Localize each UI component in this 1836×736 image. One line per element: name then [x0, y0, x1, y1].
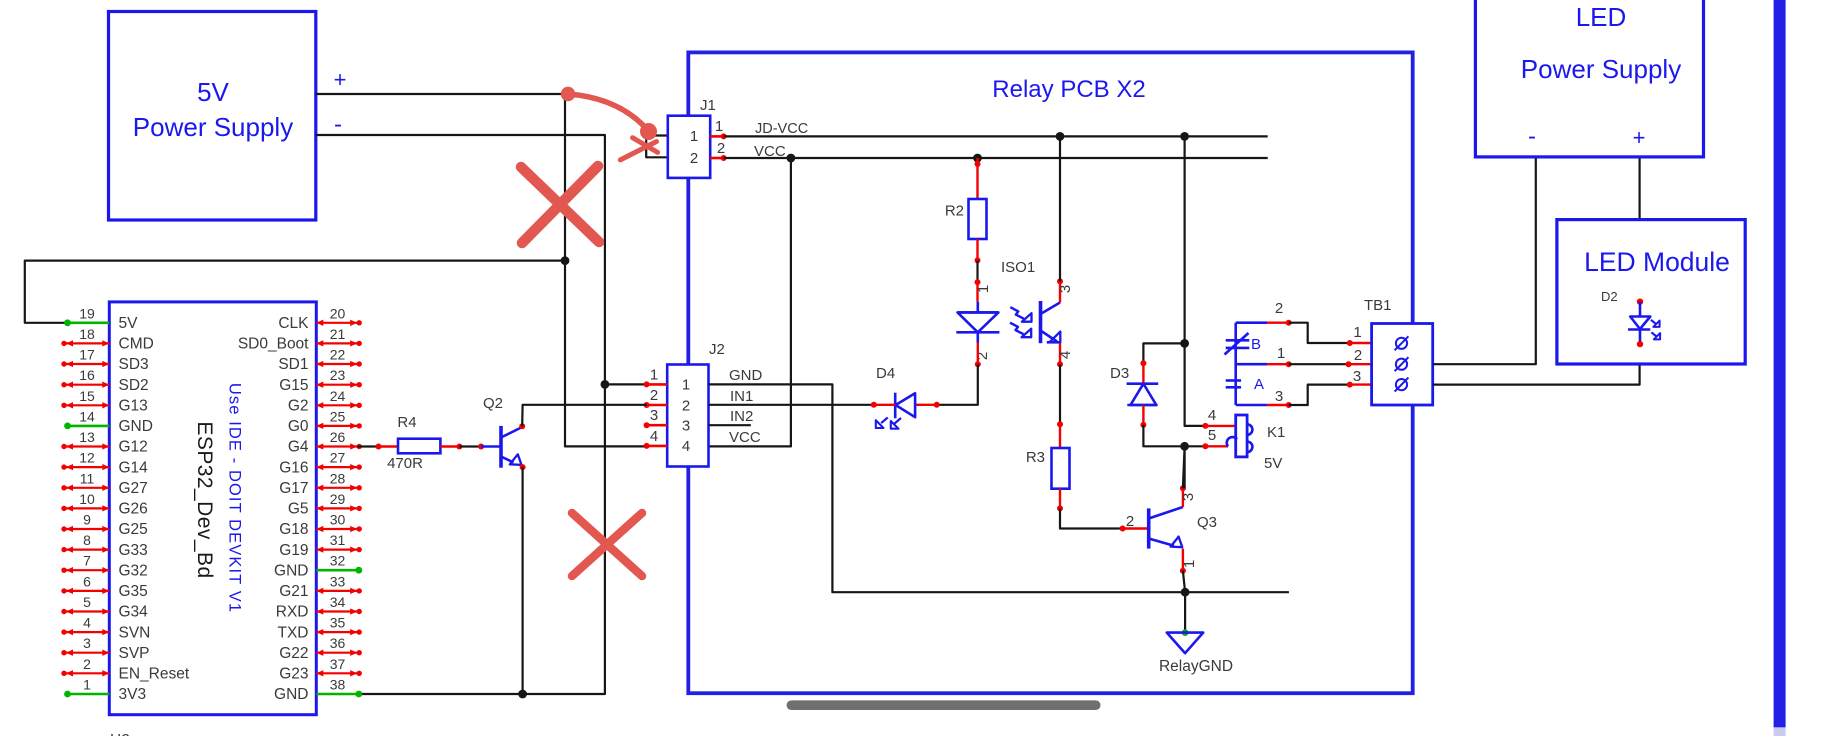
wire JD-VCC line down to coil — [1183, 136, 1185, 343]
svg-text:SVP: SVP — [119, 645, 150, 662]
junction JD-VCC / ISO1 collector — [1056, 132, 1065, 141]
transistor Q3 — [1147, 508, 1151, 548]
ESP32 pin 24 (G2) — [316, 404, 357, 406]
RelayGND pin dot — [1182, 629, 1189, 636]
ESP32 pin 16 (SD2) — [66, 384, 109, 386]
svg-text:Power Supply: Power Supply — [133, 112, 293, 142]
wire Q2 emitter to GND rail — [521, 467, 523, 694]
connector J2 box — [667, 365, 708, 467]
junction GND rail / Q2 emitter — [518, 690, 527, 699]
svg-text:34: 34 — [330, 594, 346, 610]
svg-text:5: 5 — [83, 594, 91, 610]
red X annotation 1 — [521, 167, 599, 242]
svg-text:G5: G5 — [288, 501, 309, 518]
J1 pin2 stub — [710, 157, 723, 160]
junction VCC / R2 — [973, 154, 982, 163]
svg-text:1: 1 — [1277, 345, 1285, 362]
svg-text:D3: D3 — [1110, 365, 1129, 382]
ESP32 pin 19 (5V) — [68, 321, 110, 324]
svg-text:24: 24 — [330, 388, 346, 404]
ESP32 pin 21 (SD0_Boot) — [316, 342, 357, 344]
wire -5V from supply down to GND rail — [316, 135, 605, 694]
svg-text:1: 1 — [975, 285, 992, 293]
junction coil pin5 / Q3 collector — [1180, 442, 1189, 451]
svg-text:G0: G0 — [288, 418, 309, 435]
Q3 collector stub — [1182, 488, 1184, 507]
wire Q3 emitter to ground rail — [1183, 571, 1185, 593]
TB1 pin2 stub — [1349, 363, 1372, 365]
svg-text:37: 37 — [330, 656, 346, 672]
Relay PCB X2 module outline box — [688, 52, 1412, 693]
svg-text:2: 2 — [1275, 300, 1283, 317]
wire J2 GND to ground rail — [709, 384, 1289, 592]
wire J2 IN1 to D4 — [709, 404, 874, 406]
svg-text:-: - — [1528, 123, 1536, 150]
ESP32 pin 38 (GND) — [316, 693, 359, 696]
ESP32 pin 18 (CMD) — [66, 342, 109, 344]
svg-text:K1: K1 — [1267, 424, 1285, 441]
svg-text:GND: GND — [729, 367, 763, 384]
svg-text:20: 20 — [330, 305, 346, 321]
ESP32 pin 29 (G5) — [316, 507, 357, 509]
wire Q2 collector to J2 IN1 — [522, 405, 646, 427]
wire TB1 pin2 to LED supply minus — [1433, 157, 1536, 364]
ESP32 pin 4 (SVN) — [66, 631, 109, 633]
svg-text:G21: G21 — [279, 583, 308, 600]
wire junction down to Q3 — [1183, 446, 1185, 488]
J2 pin4 stub — [647, 445, 668, 448]
svg-text:G33: G33 — [119, 542, 148, 559]
wire ISO1 collector to JD-VCC — [1059, 136, 1061, 281]
K1 coil pin4 stub — [1205, 425, 1235, 427]
svg-text:G17: G17 — [279, 480, 308, 497]
wire J2 pin1 GND — [605, 383, 647, 385]
svg-text:16: 16 — [79, 367, 95, 383]
svg-text:J2: J2 — [709, 341, 725, 358]
svg-text:G15: G15 — [279, 377, 308, 394]
svg-text:G2: G2 — [288, 398, 309, 415]
wire ISO1 cathode to D4 — [937, 364, 978, 405]
svg-text:4: 4 — [650, 428, 658, 445]
svg-text:2: 2 — [690, 150, 698, 167]
diode D3 — [1140, 360, 1146, 366]
wire +5V from supply to J2 VCC — [316, 94, 647, 446]
svg-text:470R: 470R — [387, 455, 423, 472]
relay K1 contacts — [1234, 323, 1237, 405]
svg-text:JD-VCC: JD-VCC — [755, 121, 808, 137]
svg-text:J1: J1 — [700, 97, 716, 114]
ISO1 pin4 stub — [1059, 343, 1061, 364]
TB1 pin1 stub — [1350, 342, 1372, 344]
TB1 screw terminal 2 — [1396, 359, 1407, 370]
wire JD-VCC rail — [724, 135, 1268, 137]
svg-text:G25: G25 — [119, 521, 148, 538]
wire stub J2 IN2 — [709, 424, 751, 426]
ESP32 pin 6 (G35) — [66, 590, 109, 592]
wire LED supply plus to LED module — [1638, 157, 1640, 220]
resistor R2 — [969, 199, 987, 239]
svg-text:30: 30 — [330, 512, 346, 528]
ESP32 pin 32 (GND) — [316, 569, 359, 572]
svg-text:1: 1 — [1181, 560, 1198, 568]
svg-text:9: 9 — [83, 512, 91, 528]
svg-text:2: 2 — [717, 140, 725, 157]
wire ESP32 G4 to R4 — [357, 445, 378, 447]
svg-text:GND: GND — [119, 418, 153, 435]
ESP32 pin 11 (G27) — [66, 487, 109, 489]
ESP32 pin 34 (RXD) — [316, 610, 357, 612]
ESP32 pin 8 (G33) — [66, 548, 109, 550]
svg-text:LED: LED — [1576, 2, 1627, 32]
svg-text:19: 19 — [79, 305, 95, 321]
ESP32 pin 37 (G23) — [316, 672, 357, 674]
ESP32 pin 20 (CLK) — [316, 322, 357, 324]
svg-text:5V: 5V — [119, 315, 139, 332]
jumper bracket J1 pins 1-2 — [646, 136, 668, 158]
wire D3 cathode branch — [1143, 343, 1184, 363]
svg-text:12: 12 — [79, 450, 95, 466]
ESP32 pin 27 (G16) — [316, 466, 357, 468]
transistor Q2 — [481, 445, 501, 448]
svg-text:22: 22 — [330, 347, 346, 363]
svg-text:EN_Reset: EN_Reset — [119, 666, 190, 683]
ESP32 pin 26 (G4) — [316, 445, 357, 447]
svg-text:G19: G19 — [279, 542, 308, 559]
svg-text:G16: G16 — [279, 459, 308, 476]
J2 pin2 stub — [647, 404, 668, 407]
svg-text:1: 1 — [1353, 324, 1361, 341]
svg-text:15: 15 — [79, 388, 95, 404]
J2 pin1 stub — [647, 383, 668, 386]
junction VCC / J2 VCC drop — [787, 154, 796, 163]
ground symbol RelayGND — [1167, 633, 1203, 654]
svg-text:26: 26 — [330, 429, 346, 445]
svg-text:29: 29 — [330, 491, 346, 507]
contact pin3 stub — [1267, 404, 1289, 406]
svg-text:SD1: SD1 — [278, 356, 308, 373]
svg-text:5V: 5V — [1264, 455, 1282, 472]
svg-text:8: 8 — [83, 532, 91, 548]
wire D3 anode to coil pin5 line — [1143, 425, 1205, 446]
svg-text:2: 2 — [682, 397, 690, 414]
svg-text:32: 32 — [330, 553, 346, 569]
svg-text:25: 25 — [330, 408, 346, 424]
svg-text:G22: G22 — [279, 645, 308, 662]
ISO1 phototransistor — [1039, 301, 1043, 343]
ESP32 pin 36 (G22) — [316, 652, 357, 654]
svg-text:2: 2 — [650, 387, 658, 404]
svg-text:38: 38 — [330, 677, 346, 693]
svg-text:1: 1 — [690, 128, 698, 145]
junction - wire / J2 GND — [601, 380, 610, 389]
svg-text:G18: G18 — [279, 521, 308, 538]
svg-text:G27: G27 — [119, 480, 148, 497]
resistor R4 — [398, 439, 440, 454]
svg-text:G32: G32 — [119, 562, 148, 579]
svg-text:Use IDE - DOIT DEVKIT V1: Use IDE - DOIT DEVKIT V1 — [226, 383, 244, 613]
svg-text:G23: G23 — [279, 666, 308, 683]
gray scrollbar — [787, 700, 1101, 710]
blue page edge bar — [1774, 0, 1786, 727]
svg-text:2: 2 — [974, 352, 991, 360]
svg-text:GND: GND — [274, 562, 308, 579]
ISO1 light arrows — [1010, 307, 1024, 319]
svg-text:CLK: CLK — [278, 315, 309, 332]
svg-text:G13: G13 — [119, 398, 148, 415]
svg-text:D4: D4 — [876, 365, 895, 382]
svg-text:B: B — [1251, 336, 1261, 353]
wire R4 to Q2 base — [440, 445, 459, 447]
svg-text:36: 36 — [330, 635, 346, 651]
svg-text:G14: G14 — [119, 459, 149, 476]
wire to RelayGND — [1184, 592, 1186, 631]
svg-text:3: 3 — [1353, 368, 1361, 385]
K1 coil pin5 stub — [1205, 445, 1228, 447]
diode D4 — [916, 404, 937, 406]
J2 pin3 stub — [647, 424, 668, 427]
svg-text:CMD: CMD — [119, 336, 154, 353]
svg-text:IN1: IN1 — [730, 388, 753, 405]
svg-text:R2: R2 — [945, 203, 964, 220]
LED power supply box — [1475, 0, 1703, 157]
svg-text:G35: G35 — [119, 583, 148, 600]
ESP32 pin 2 (EN_Reset) — [66, 672, 109, 674]
ESP32 pin 5 (G34) — [66, 610, 109, 612]
TB1 screw terminal 1 — [1396, 338, 1407, 349]
LED D2 — [1637, 299, 1643, 305]
svg-text:RelayGND: RelayGND — [1159, 658, 1233, 675]
ESP32 pin 33 (G21) — [316, 590, 357, 592]
ESP32 pin 28 (G17) — [316, 487, 357, 489]
ESP32 pin 7 (G32) — [66, 569, 109, 571]
ISO1 LED — [976, 302, 979, 313]
svg-text:LED Module: LED Module — [1584, 247, 1730, 277]
svg-text:Relay PCB X2: Relay PCB X2 — [992, 76, 1145, 103]
svg-text:3V3: 3V3 — [119, 686, 147, 703]
svg-text:+: + — [334, 67, 347, 92]
wire ISO1 emitter to R3 — [1059, 364, 1061, 424]
svg-text:3: 3 — [682, 418, 690, 435]
ESP32 pin 15 (G13) — [66, 404, 109, 406]
svg-text:33: 33 — [330, 573, 346, 589]
TB1 screw terminal 3 — [1396, 379, 1407, 390]
J1 pin1 stub — [710, 135, 723, 138]
ESP32 pin 25 (G0) — [316, 425, 357, 427]
relay coil K1 — [1236, 415, 1247, 457]
svg-text:3: 3 — [1275, 388, 1283, 405]
svg-text:18: 18 — [79, 326, 95, 342]
svg-text:21: 21 — [330, 326, 346, 342]
svg-text:A: A — [1254, 376, 1264, 393]
ESP32 pin 14 (GND) — [68, 425, 110, 428]
terminal block TB1 box — [1372, 324, 1433, 406]
wire contact3 to TB1 pin3 — [1289, 385, 1350, 405]
svg-text:13: 13 — [79, 429, 95, 445]
resistor R3 — [1052, 448, 1070, 489]
wire VCC rail — [724, 157, 1268, 159]
svg-text:H2: H2 — [110, 732, 130, 736]
wire VCC down to J2 pin4 — [709, 158, 791, 446]
svg-text:G4: G4 — [288, 439, 309, 456]
svg-text:1: 1 — [682, 377, 690, 394]
svg-text:2: 2 — [1354, 347, 1362, 364]
connector J1 box — [668, 116, 710, 178]
ESP32 pin 35 (TXD) — [316, 631, 357, 633]
svg-text:31: 31 — [330, 532, 346, 548]
svg-text:G34: G34 — [119, 604, 149, 621]
svg-text:23: 23 — [330, 367, 346, 383]
svg-text:1: 1 — [650, 366, 658, 383]
ESP32 pin 10 (G26) — [66, 507, 109, 509]
Q3 emitter stub — [1182, 549, 1184, 571]
svg-text:G26: G26 — [119, 501, 148, 518]
junction ground rail / Q3 emitter — [1181, 588, 1190, 597]
svg-text:TXD: TXD — [278, 624, 309, 641]
svg-text:3: 3 — [1180, 493, 1197, 501]
svg-text:IN2: IN2 — [730, 408, 753, 425]
TB1 pin3 stub — [1350, 383, 1372, 385]
svg-text:17: 17 — [79, 347, 95, 363]
svg-text:1: 1 — [83, 677, 91, 693]
ESP32 pin 23 (G15) — [316, 384, 357, 386]
svg-text:2: 2 — [83, 656, 91, 672]
svg-text:4: 4 — [83, 615, 91, 631]
svg-text:SD2: SD2 — [119, 377, 149, 394]
ESP32 pin 13 (G12) — [66, 445, 109, 447]
svg-text:G12: G12 — [119, 439, 148, 456]
svg-text:1: 1 — [715, 118, 723, 135]
svg-text:4: 4 — [1057, 351, 1074, 359]
svg-text:Q2: Q2 — [483, 395, 503, 412]
junction +5V to ESP32 — [561, 256, 570, 265]
svg-text:TB1: TB1 — [1364, 297, 1392, 314]
ESP32 pin 17 (SD3) — [66, 363, 109, 365]
wire contact2 to TB1 pin1 — [1289, 323, 1350, 343]
svg-text:35: 35 — [330, 615, 346, 631]
wire R3 to Q3 base — [1059, 489, 1061, 509]
svg-text:6: 6 — [83, 573, 91, 589]
red curve annotation — [568, 94, 649, 131]
red small x annotation — [633, 138, 658, 153]
svg-text:VCC: VCC — [729, 429, 761, 446]
ESP32 pin 22 (SD1) — [316, 363, 357, 365]
svg-text:14: 14 — [79, 408, 95, 424]
ESP32 module box — [109, 302, 316, 715]
svg-text:4: 4 — [682, 438, 690, 455]
svg-text:5: 5 — [1208, 427, 1216, 444]
svg-text:2: 2 — [1126, 513, 1134, 530]
wire +5V branch to ESP32 pin19 — [25, 261, 565, 323]
svg-text:SVN: SVN — [119, 624, 151, 641]
ISO1 pin3 stub — [1059, 281, 1061, 302]
svg-text:Power Supply: Power Supply — [1521, 54, 1681, 84]
svg-text:Q3: Q3 — [1197, 514, 1217, 531]
svg-text:SD3: SD3 — [119, 356, 149, 373]
wire R2 to ISO1 anode — [976, 239, 978, 260]
contact pin2 stub — [1267, 322, 1289, 324]
svg-text:27: 27 — [330, 450, 346, 466]
svg-text:4: 4 — [1208, 407, 1216, 424]
svg-text:D2: D2 — [1601, 289, 1618, 304]
svg-text:+: + — [1633, 125, 1646, 150]
svg-text:10: 10 — [79, 491, 95, 507]
svg-text:28: 28 — [330, 470, 346, 486]
svg-text:11: 11 — [80, 470, 95, 486]
svg-text:GND: GND — [274, 686, 308, 703]
svg-text:3: 3 — [83, 635, 91, 651]
red X annotation 2 — [572, 513, 642, 576]
contact pin1 stub — [1267, 363, 1289, 365]
svg-text:3: 3 — [650, 407, 658, 424]
ISO1 LED cathode stub — [977, 343, 979, 365]
ESP32 pin 9 (G25) — [66, 528, 109, 530]
ESP32 pin 30 (G18) — [316, 528, 357, 530]
svg-text:ISO1: ISO1 — [1001, 259, 1035, 276]
svg-text:RXD: RXD — [276, 604, 309, 621]
svg-text:ESP32_Dev_Bd: ESP32_Dev_Bd — [193, 421, 216, 578]
svg-text:VCC: VCC — [754, 143, 786, 160]
svg-text:7: 7 — [83, 553, 91, 569]
svg-text:SD0_Boot: SD0_Boot — [238, 336, 309, 353]
svg-text:R4: R4 — [397, 414, 416, 431]
ESP32 pin 3 (SVP) — [66, 652, 109, 654]
junction JD-VCC / relay coil line — [1180, 132, 1189, 141]
wire VCC to R2 — [976, 158, 978, 199]
ESP32 pin 1 (3V3) — [68, 693, 110, 696]
svg-text:R3: R3 — [1026, 449, 1045, 466]
5V power supply box — [109, 12, 316, 221]
wire contact1 to TB1 pin2 — [1289, 363, 1349, 365]
LED module box — [1557, 220, 1745, 364]
wire TB1 pin3 to LED module — [1433, 364, 1640, 385]
svg-text:5V: 5V — [197, 77, 229, 107]
wire Q3 collector up — [1183, 446, 1185, 488]
svg-text:3: 3 — [1057, 285, 1074, 293]
ESP32 pin 12 (G14) — [66, 466, 109, 468]
ESP32 pin 31 (G19) — [316, 548, 357, 550]
